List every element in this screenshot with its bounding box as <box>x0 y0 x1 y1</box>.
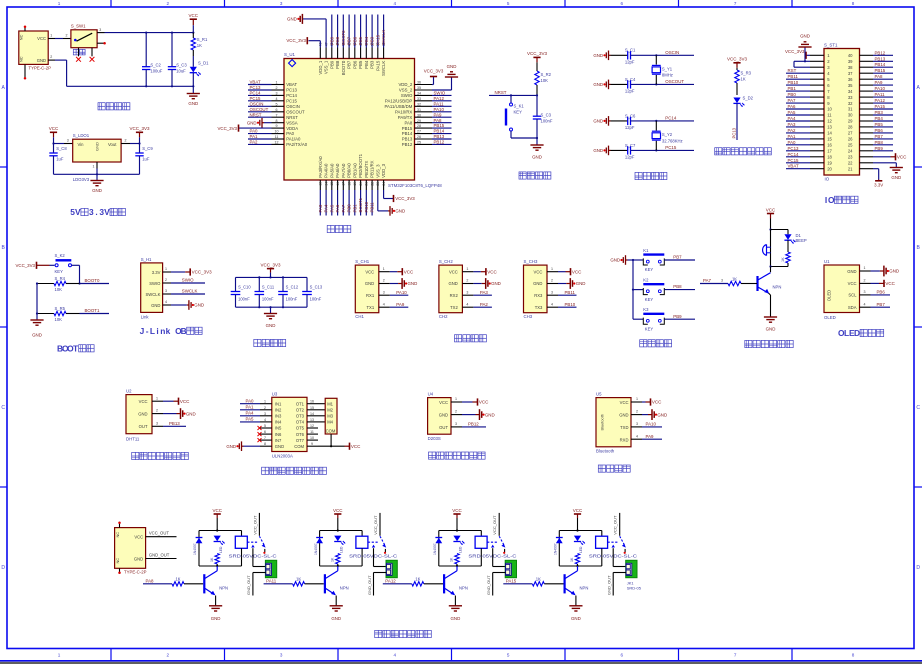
S_ST1 right pin stubs <box>860 55 874 168</box>
svg-text:4: 4 <box>394 653 397 658</box>
svg-text:I: I <box>825 195 827 205</box>
ground symbol (reset) <box>530 145 543 159</box>
svg-text:B: B <box>181 326 187 336</box>
svg-text:COM: COM <box>294 444 304 449</box>
svg-text:26: 26 <box>417 135 421 139</box>
svg-text:VCC_3V3: VCC_3V3 <box>424 68 444 73</box>
svg-text:PB8: PB8 <box>335 60 340 69</box>
svg-text:OT4: OT4 <box>296 420 305 425</box>
svg-text:PA5: PA5 <box>246 417 255 422</box>
svg-text:12: 12 <box>827 119 832 124</box>
buzzer BEEP <box>763 245 771 256</box>
wire relay bottom rail <box>559 565 602 567</box>
svg-text:3: 3 <box>276 92 278 96</box>
svg-text:SRD-05: SRD-05 <box>627 586 642 591</box>
svg-text:32: 32 <box>848 101 853 106</box>
resistor S_R4 10K <box>37 276 80 292</box>
svg-text:6: 6 <box>264 430 266 434</box>
svg-text:40: 40 <box>848 53 853 58</box>
svg-text:1: 1 <box>864 266 866 270</box>
svg-text:4: 4 <box>264 418 266 422</box>
wire VCC_3V3 to node <box>139 137 141 143</box>
svg-text:VCC: VCC <box>212 508 222 513</box>
U3 input net labels PA0 PA1 PA4 PA5 <box>240 399 260 422</box>
svg-text:9: 9 <box>311 442 313 446</box>
terminal block JK (green) <box>505 560 516 577</box>
svg-text:14: 14 <box>827 131 832 136</box>
svg-text:GND: GND <box>571 616 581 621</box>
svg-text:2: 2 <box>125 139 127 143</box>
svg-text:SWIO: SWIO <box>149 281 161 286</box>
svg-text:PA15: PA15 <box>506 578 517 583</box>
svg-text:RX2: RX2 <box>450 293 459 298</box>
label SRD-05VDC-SL-C <box>229 553 277 558</box>
svg-text:VCC_OUT: VCC_OUT <box>613 515 618 535</box>
svg-text:1: 1 <box>50 34 52 38</box>
svg-text:PB9: PB9 <box>875 146 884 151</box>
S_ST1 left pin stubs <box>810 55 824 168</box>
svg-text:PB8: PB8 <box>875 140 884 145</box>
svg-text:7: 7 <box>276 113 278 117</box>
svg-text:S_R2: S_R2 <box>541 72 552 77</box>
svg-text:BOOT0: BOOT0 <box>85 278 100 283</box>
net label PA7 with base resistor 1K <box>700 277 757 286</box>
IC S_U1 STM32F103C8T6_LQFP48 body <box>284 52 442 188</box>
svg-text:K2: K2 <box>643 278 649 283</box>
svg-text:4: 4 <box>165 300 167 304</box>
svg-text:GND: GND <box>92 188 102 193</box>
svg-text:PA12: PA12 <box>434 96 445 101</box>
svg-text:1uF: 1uF <box>56 156 64 161</box>
svg-text:30: 30 <box>848 113 853 118</box>
svg-text:VCC: VCC <box>452 508 462 513</box>
svg-text:PB7: PB7 <box>347 36 352 45</box>
caption: Bluetooth module <box>598 465 630 472</box>
svg-text:11: 11 <box>827 113 832 118</box>
svg-text:5: 5 <box>264 424 266 428</box>
svg-text:S_U1: S_U1 <box>284 52 296 57</box>
svg-text:i: i <box>156 326 158 336</box>
svg-text:PC14: PC14 <box>250 91 262 96</box>
caption: crystal circuit <box>635 172 667 179</box>
pin 1 of S_CH2 to VCC <box>462 267 497 276</box>
wire relay left branch <box>558 531 560 567</box>
ground symbol (relay PA15) <box>569 606 582 621</box>
svg-text:VCC: VCC <box>487 269 497 274</box>
pin 2 of switch S_SW1 <box>63 34 71 39</box>
svg-text:2: 2 <box>167 1 170 6</box>
ground symbol (LDO) <box>90 181 103 193</box>
net label BOOT0 <box>80 278 110 283</box>
svg-text:S_C7: S_C7 <box>625 143 636 148</box>
svg-text:RX1: RX1 <box>366 293 375 298</box>
svg-text:PA9: PA9 <box>646 434 655 439</box>
svg-text:23: 23 <box>376 182 380 186</box>
svg-text:2: 2 <box>167 653 170 658</box>
svg-text:VSS_3: VSS_3 <box>375 164 380 178</box>
svg-text:PA12/USB/DP: PA12/USB/DP <box>385 99 413 104</box>
svg-text:1N4007: 1N4007 <box>554 543 558 555</box>
svg-text:S_LDO1: S_LDO1 <box>73 133 90 138</box>
net VCC_OUT (relay common) <box>613 513 620 536</box>
resistor S_R1 1K <box>191 33 208 56</box>
svg-text:100nF: 100nF <box>262 297 274 302</box>
resistor 1K (relay LED) <box>570 554 580 567</box>
pin 3 U4 net PB12 <box>451 422 486 427</box>
svg-text:COM: COM <box>326 428 336 433</box>
pin 1 U4 to VCC <box>451 397 489 406</box>
wire NC contact to terminal <box>613 548 626 566</box>
svg-text:VBAT: VBAT <box>788 164 799 169</box>
svg-text:IO: IO <box>825 177 830 182</box>
svg-text:33: 33 <box>848 95 853 100</box>
pin 2 of S_CH1 to GND <box>379 278 417 289</box>
svg-text:PB5: PB5 <box>358 36 363 45</box>
caption: main chip <box>327 225 351 232</box>
svg-text:13: 13 <box>310 418 314 422</box>
svg-text:PB4: PB4 <box>875 116 884 121</box>
IC U3 ULN2003A body <box>272 391 307 458</box>
svg-text:12: 12 <box>275 141 279 145</box>
svg-text:KEY: KEY <box>55 269 64 274</box>
transistor Q NPN (relay PA8) <box>204 566 228 595</box>
svg-text:PB13: PB13 <box>875 56 886 61</box>
svg-text:28: 28 <box>848 125 853 130</box>
svg-text:PA10/RX: PA10/RX <box>395 110 412 115</box>
wire resistor to node <box>536 85 538 97</box>
svg-text:GND: GND <box>408 281 418 286</box>
wire VCC to rail <box>192 25 194 33</box>
svg-text:1: 1 <box>156 396 158 400</box>
pin 3 Vin of LDO <box>64 139 73 144</box>
net label PA8 with base resistor 1K <box>143 576 203 586</box>
svg-text:3: 3 <box>165 289 167 293</box>
U3 right pin stubs 16-9 <box>307 400 318 447</box>
svg-text:KEY: KEY <box>645 297 654 302</box>
net VCC_OUT (relay common) <box>252 513 259 536</box>
pin 3 DHT11 net PB13 <box>152 421 186 426</box>
wire relay bottom rail <box>320 565 363 567</box>
svg-text:PC15: PC15 <box>250 96 262 101</box>
wire LDO ground rail <box>54 169 140 176</box>
svg-text:BOOT0: BOOT0 <box>341 30 346 45</box>
caption: reset circuit <box>519 172 551 179</box>
wire buzzer branch <box>770 230 772 267</box>
svg-text:GND: GND <box>889 269 899 274</box>
capacitor S_C6 12pF <box>611 113 657 130</box>
power port VCC_3V3 at U1.VDD_2 <box>424 68 444 84</box>
wire emitter to GND (relay) <box>575 596 577 606</box>
svg-text:PB11: PB11 <box>370 202 375 213</box>
capacitor S_C8 1uF <box>49 144 67 175</box>
svg-text:PA0: PA0 <box>246 399 255 404</box>
svg-text:VSS_1: VSS_1 <box>324 60 329 74</box>
wire terminal pin2 to GND_OUT <box>367 573 387 596</box>
svg-text:BOOT1: BOOT1 <box>85 308 100 313</box>
svg-text:IN2: IN2 <box>275 408 282 413</box>
capacitor S_C12 100nF <box>278 276 299 308</box>
caption: PIR sensor module <box>429 452 486 459</box>
caption: sound light alarm circuit <box>745 340 793 347</box>
LED (relay indicator) <box>453 536 464 553</box>
pin 1 GND of LDO <box>93 162 98 169</box>
svg-text:8: 8 <box>852 653 855 658</box>
svg-text:7: 7 <box>264 436 266 440</box>
caption: 5V to 3.3V circuit <box>70 207 125 217</box>
svg-text:22: 22 <box>848 161 853 166</box>
svg-text:2: 2 <box>264 406 266 410</box>
capacitor S_C3 10uF <box>168 31 188 87</box>
svg-text:VCC: VCC <box>479 400 489 405</box>
svg-text:PB7: PB7 <box>875 134 884 139</box>
svg-text:PC15: PC15 <box>665 145 677 150</box>
svg-text:VCC: VCC <box>572 269 582 274</box>
svg-text:PA2: PA2 <box>480 302 489 307</box>
wire filter bottom rail <box>236 306 308 308</box>
net label PA15 with base resistor 1K <box>503 576 563 586</box>
svg-text:VCC: VCC <box>351 444 361 449</box>
caption: program run indicator <box>715 148 772 155</box>
power port VCC_3V3 (indicator) <box>727 57 748 68</box>
svg-text:PA3: PA3 <box>318 204 323 212</box>
svg-text:1N4007: 1N4007 <box>433 543 437 555</box>
svg-text:OSCOUT: OSCOUT <box>286 110 305 115</box>
svg-text:OUT: OUT <box>439 425 448 430</box>
relay coil K (SRD-05VDC-SL-C) <box>235 531 247 567</box>
svg-text:VDD_3: VDD_3 <box>381 163 386 177</box>
relay switch lever <box>608 536 626 547</box>
diode D 1N4007 (flyback) <box>433 538 442 556</box>
svg-text:PB7: PB7 <box>347 60 352 69</box>
svg-text:13: 13 <box>827 125 832 130</box>
svg-text:1: 1 <box>93 164 95 168</box>
svg-text:PA3: PA3 <box>788 122 797 127</box>
svg-text:PA4: PA4 <box>246 411 255 416</box>
svg-text:Vin: Vin <box>78 142 85 147</box>
crystal S_Y1 8MHz <box>652 55 673 84</box>
resistor 1K (relay LED) <box>210 554 220 567</box>
svg-text:PC13: PC13 <box>250 85 262 90</box>
wire key to BOOT0 node <box>72 265 81 284</box>
svg-text:PA11: PA11 <box>434 101 445 106</box>
svg-text:VCC_3V3: VCC_3V3 <box>217 126 237 131</box>
U1 bottom pin stubs 13-24 <box>319 180 386 190</box>
svg-text:PC15: PC15 <box>286 99 297 104</box>
svg-text:PC13: PC13 <box>286 88 297 93</box>
svg-text:PA11: PA11 <box>875 92 886 97</box>
labels JK1 SRD-05 (terminal) <box>627 580 642 590</box>
svg-text:VCC: VCC <box>897 155 907 160</box>
svg-text:16: 16 <box>336 182 340 186</box>
svg-text:PB8: PB8 <box>335 36 340 45</box>
svg-text:18: 18 <box>827 155 832 160</box>
svg-text:VCC: VCC <box>573 508 583 513</box>
svg-text:GND: GND <box>266 323 276 328</box>
svg-text:10uF: 10uF <box>176 69 186 74</box>
svg-text:21: 21 <box>848 166 853 171</box>
wire split to LED branch <box>771 230 789 235</box>
ground symbol at ST1 pin2 <box>794 33 812 62</box>
svg-text:TXD: TXD <box>620 425 628 430</box>
svg-text:PA7: PA7 <box>788 98 797 103</box>
svg-text:10K: 10K <box>55 287 63 292</box>
svg-text:3: 3 <box>280 1 283 6</box>
svg-text:6: 6 <box>621 653 624 658</box>
svg-text:VCC_3V3: VCC_3V3 <box>395 196 415 201</box>
svg-text:1uF: 1uF <box>142 156 150 161</box>
svg-text:PB6: PB6 <box>352 36 357 45</box>
svg-text:GND: GND <box>532 154 542 159</box>
wire VCC to node <box>52 137 54 144</box>
svg-text:NPN: NPN <box>340 585 349 590</box>
power port VCC (LDO input) <box>49 126 59 137</box>
svg-text:SWIO: SWIO <box>401 93 413 98</box>
wire VCC to coil rail <box>216 518 218 531</box>
svg-text:PB1: PB1 <box>352 204 357 213</box>
svg-text:100nF: 100nF <box>238 297 250 302</box>
svg-text:VCC_3V3: VCC_3V3 <box>527 51 548 56</box>
svg-text:4: 4 <box>466 302 468 306</box>
terminal block JK (green) <box>386 560 397 577</box>
svg-text:VDDA: VDDA <box>286 126 298 131</box>
svg-text:NC: NC <box>19 56 24 62</box>
svg-text:1: 1 <box>276 81 278 85</box>
net label PA11 with base resistor 1K <box>264 576 324 586</box>
svg-text:1K: 1K <box>781 257 785 262</box>
svg-text:S_R4: S_R4 <box>55 276 66 281</box>
svg-text:PA7: PA7 <box>703 278 712 283</box>
svg-text:RX3: RX3 <box>534 293 543 298</box>
svg-text:GND: GND <box>365 281 374 286</box>
svg-text:100uF: 100uF <box>150 69 162 74</box>
svg-text:3: 3 <box>89 207 94 217</box>
svg-text:2: 2 <box>455 410 457 414</box>
terminal block JK (green) <box>626 560 637 577</box>
svg-text:GND: GND <box>32 333 42 338</box>
svg-text:100nF: 100nF <box>286 297 298 302</box>
svg-text:VCC: VCC <box>180 399 190 404</box>
svg-text:31: 31 <box>417 108 421 112</box>
power port VCC (relay PA8) <box>212 508 222 518</box>
capacitor S_C9 1uF <box>135 144 153 175</box>
svg-text:VCC: VCC <box>848 281 857 286</box>
svg-text:20: 20 <box>359 182 363 186</box>
svg-text:GND: GND <box>491 281 501 286</box>
pin 4 U5 net PA9 <box>631 434 662 439</box>
wire terminal pin2 to GND_OUT <box>607 573 627 596</box>
svg-text:OT6: OT6 <box>296 432 305 437</box>
svg-text:S_K2: S_K2 <box>55 253 66 258</box>
svg-text:GND: GND <box>576 281 586 286</box>
svg-text:OT7: OT7 <box>296 438 305 443</box>
pin 2 GND of J1 <box>48 55 55 60</box>
svg-text:1K: 1K <box>197 43 202 48</box>
svg-text:PA8: PA8 <box>146 578 155 583</box>
S_ST1 left net labels <box>786 68 810 169</box>
svg-text:PA2: PA2 <box>788 128 797 133</box>
svg-text:k: k <box>166 326 171 336</box>
wire COM of motor connector down <box>330 434 332 446</box>
svg-text:3: 3 <box>67 139 69 143</box>
pin NC top of J1 <box>24 26 27 31</box>
svg-text:LDO3V3: LDO3V3 <box>73 177 90 182</box>
wire NC contact to terminal <box>493 548 506 566</box>
svg-text:2: 2 <box>66 34 68 38</box>
pin 2 of H1 net SWIO <box>163 278 205 283</box>
svg-text:4: 4 <box>551 302 553 306</box>
module U4 D203S <box>428 392 451 441</box>
ground symbol left (S_C6) <box>593 116 610 126</box>
svg-text:12pF: 12pF <box>625 89 635 94</box>
connector JM stepper motor (M1-M4,COM) <box>325 398 337 434</box>
svg-text:21: 21 <box>365 182 369 186</box>
svg-text:S_R5: S_R5 <box>55 306 66 311</box>
wire bottom of reset <box>511 137 538 145</box>
svg-text:OT2: OT2 <box>296 408 305 413</box>
svg-text:.: . <box>95 207 97 217</box>
pin 1 of S_CH3 to VCC <box>547 267 582 276</box>
U3 left pin stubs 1-8 <box>260 400 272 447</box>
push button S_K2 KEY <box>50 253 72 274</box>
svg-text:PB9: PB9 <box>329 60 334 69</box>
pin 1 OLED to GND <box>860 266 900 277</box>
wire relay bottom rail <box>199 565 242 567</box>
svg-text:1: 1 <box>58 1 61 6</box>
wire BOOT pulldown rail <box>36 282 38 320</box>
svg-text:IN4: IN4 <box>275 420 282 425</box>
svg-text:M2: M2 <box>327 408 333 413</box>
LED D1 BEEP <box>784 233 806 244</box>
resistor 1K (relay LED) <box>330 554 340 567</box>
svg-text:22: 22 <box>370 182 374 186</box>
svg-text:3: 3 <box>156 421 158 425</box>
svg-text:VCC_3V3: VCC_3V3 <box>260 262 281 267</box>
svg-text:GND: GND <box>287 17 297 22</box>
net label NRST wire <box>489 90 537 95</box>
svg-text:PB13: PB13 <box>402 137 413 142</box>
svg-text:U2: U2 <box>126 389 132 394</box>
svg-text:PB11: PB11 <box>565 290 576 295</box>
svg-text:32: 32 <box>417 102 421 106</box>
svg-text:NC: NC <box>115 558 120 564</box>
relay NO contact (n.c. stub) <box>263 549 265 554</box>
caption: filter circuit <box>254 339 286 346</box>
svg-text:PA10: PA10 <box>396 290 407 295</box>
svg-text:BEEP: BEEP <box>796 238 807 243</box>
svg-text:GND: GND <box>95 142 100 151</box>
power port VCC (relay PA12) <box>452 508 462 518</box>
svg-text:VCC_OUT: VCC_OUT <box>252 515 257 535</box>
ground symbol at U1.VSS_1 (top) <box>287 14 326 48</box>
wire PC14 <box>655 116 694 122</box>
ground symbol left (S_C4) <box>593 80 610 90</box>
svg-text:VCC: VCC <box>766 207 776 212</box>
svg-text:PC15: PC15 <box>788 158 800 163</box>
module U2 DHT11 <box>126 389 152 442</box>
svg-text:4: 4 <box>864 302 866 306</box>
pin 1 DHT11 to VCC <box>152 396 190 405</box>
svg-text:PB15: PB15 <box>434 123 445 128</box>
svg-text:6: 6 <box>276 108 278 112</box>
svg-text:S_C13: S_C13 <box>310 285 323 290</box>
svg-text:1: 1 <box>383 267 385 271</box>
svg-text:10: 10 <box>310 436 314 440</box>
svg-text:20: 20 <box>827 166 832 171</box>
svg-text:33: 33 <box>417 97 421 101</box>
svg-text:V: V <box>104 207 110 217</box>
svg-text:GND_OUT: GND_OUT <box>486 575 491 595</box>
svg-text:PB7: PB7 <box>673 255 682 260</box>
